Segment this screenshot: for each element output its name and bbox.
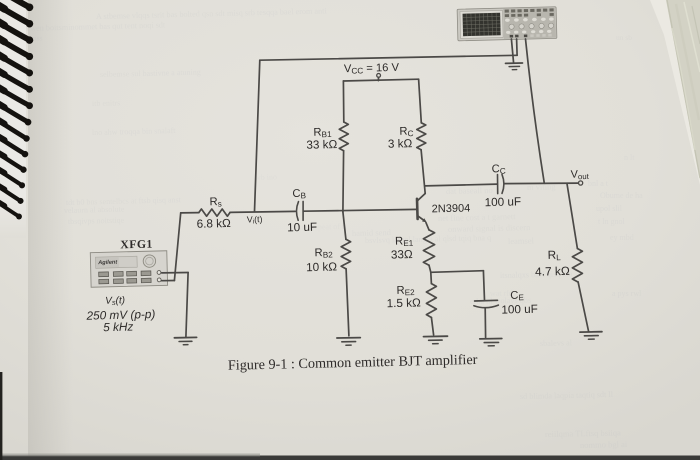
oscilloscope screen bezel [460, 10, 503, 38]
left photo edge dark strips [0, 372, 2, 460]
svg-text:wb ino: wb ino [255, 172, 277, 182]
resistor RE1 [423, 230, 434, 265]
ground RE2 [424, 335, 448, 337]
svg-text:33 kΩ: 33 kΩ [306, 138, 337, 152]
ground XFG1 [174, 336, 196, 338]
wire scope ground drop [511, 39, 513, 63]
svg-text:leamsel: leamsel [508, 235, 535, 246]
svg-text:33Ω: 33Ω [391, 248, 413, 262]
wire collector to CC [425, 184, 497, 186]
svg-text:nommo bgl ai: nommo bgl ai [580, 439, 628, 450]
wire Rs to CB [230, 211, 295, 212]
transistor Q1 emitter lead [418, 216, 425, 221]
resistor RB2 [341, 239, 350, 268]
svg-text:a pys rwl: a pys rwl [612, 289, 642, 298]
wire CC to Vout [505, 182, 579, 185]
function generator knob [143, 255, 156, 268]
svg-text:6.8 kΩ: 6.8 kΩ [197, 217, 232, 231]
wire VCC rail [343, 79, 418, 81]
svg-text:100 uF: 100 uF [501, 303, 538, 317]
wire emitter to RE1 [426, 222, 429, 230]
svg-text:Agilent: Agilent [97, 260, 118, 267]
wire RL drop [567, 184, 577, 249]
other pages edge top-right corner [650, 0, 700, 185]
wire XFG1 top terminal to ground drop [162, 272, 189, 274]
svg-text:un sb: un sb [616, 33, 632, 42]
svg-text:upol slil: upol slil [596, 204, 623, 213]
function generator buttons row 2 [99, 278, 151, 284]
svg-text:tbsqivps noitstiqe: tbsqivps noitstiqe [68, 216, 125, 226]
transistor Q1 2N3904 collector lead [417, 194, 425, 201]
capacitor CB [296, 202, 298, 221]
spiral binding paper edge [0, 0, 26, 238]
wire scope CH2 drop to Vout [526, 39, 545, 183]
svg-text:reiilqma TLftsq bsiiqa: reiilqma TLftsq bsiiqa [545, 427, 621, 439]
svg-text:Vs(t): Vs(t) [105, 295, 125, 307]
wire base left segment [181, 212, 199, 214]
function generator output terminals [157, 271, 161, 275]
capacitor CC left plate [497, 175, 499, 194]
ground RB2 [337, 337, 360, 339]
svg-text:sbalevs al: sbalevs al [540, 338, 573, 348]
svg-text:3 kΩ: 3 kΩ [388, 137, 413, 151]
wire probe rail Vi to scope CH1 [260, 55, 517, 60]
svg-text:10 uF: 10 uF [287, 221, 317, 235]
svg-text:5 kHz: 5 kHz [103, 319, 134, 334]
svg-text:100 uF: 100 uF [485, 195, 522, 209]
wire RE2 bottom [431, 317, 433, 335]
resistor RB1 [339, 122, 348, 151]
function generator XFG1 body [90, 251, 167, 287]
wire RB2 bottom [346, 269, 349, 336]
spiral binding coils [0, 0, 29, 216]
resistor Rs [199, 209, 230, 216]
oscilloscope control panel [503, 8, 556, 39]
svg-text:Vi(t): Vi(t) [247, 214, 263, 226]
wire CB to base [303, 209, 417, 211]
capacitor CC right plate [502, 174, 504, 193]
oscilloscope screen [463, 13, 501, 36]
ground CE [480, 338, 502, 340]
wire RE1 bottom to junction [429, 265, 431, 272]
wire RB2 top [343, 212, 346, 239]
svg-text:bnl a t: bnl a t [588, 179, 609, 188]
ground scope [506, 62, 523, 64]
wire scope CH1 drop [516, 39, 519, 55]
function generator buttons row 1 [99, 271, 151, 277]
oscilloscope XSC1 body [457, 7, 557, 41]
coil tips [16, 3, 33, 219]
wire CE drop [483, 271, 484, 301]
capacitor CE bottom plate [474, 305, 499, 308]
svg-text:n lt: n lt [624, 153, 635, 162]
svg-text:ey mbd: ey mbd [610, 233, 634, 242]
svg-text:itb enitrs: itb enitrs [92, 98, 120, 108]
svg-text:Obume de ha: Obume de ha [600, 191, 643, 200]
wire junction to CE branch [431, 271, 484, 273]
bottom photo edge [0, 456, 700, 460]
capacitor CE top plate [475, 299, 498, 302]
power VCC terminal [377, 77, 379, 80]
ground RL [580, 331, 602, 333]
wire Vi riser [255, 60, 260, 211]
svg-text:1.5 kΩ: 1.5 kΩ [387, 296, 422, 310]
wire RC bottom to collector [421, 150, 425, 194]
wire RE2 top [430, 272, 433, 283]
svg-text:dat baseall no: dat baseall no [446, 185, 493, 196]
wire RC top [419, 79, 422, 123]
svg-text:10 kΩ: 10 kΩ [306, 260, 337, 274]
function generator XFG1 display [95, 256, 137, 268]
wire CE bottom [484, 309, 486, 338]
wire RB1 bottom to base junction [342, 151, 345, 212]
svg-text:XFG1: XFG1 [120, 238, 153, 252]
wire RB1 top [342, 81, 344, 122]
resistor RC [417, 123, 426, 150]
wire XFG1 bottom terminal riser to Rs [162, 280, 175, 282]
svg-text:2N3904: 2N3904 [432, 202, 471, 215]
resistor RL [572, 249, 582, 282]
transistor Q1 emitter arrow [422, 218, 427, 222]
wire RL bottom [578, 282, 589, 332]
svg-text:4.7 kΩ: 4.7 kΩ [535, 264, 570, 279]
node Vout terminal [579, 181, 583, 185]
transistor Q1 base bar [416, 199, 419, 219]
resistor RE2 [426, 284, 436, 318]
svg-text:t ln gnol: t ln gnol [598, 217, 625, 226]
